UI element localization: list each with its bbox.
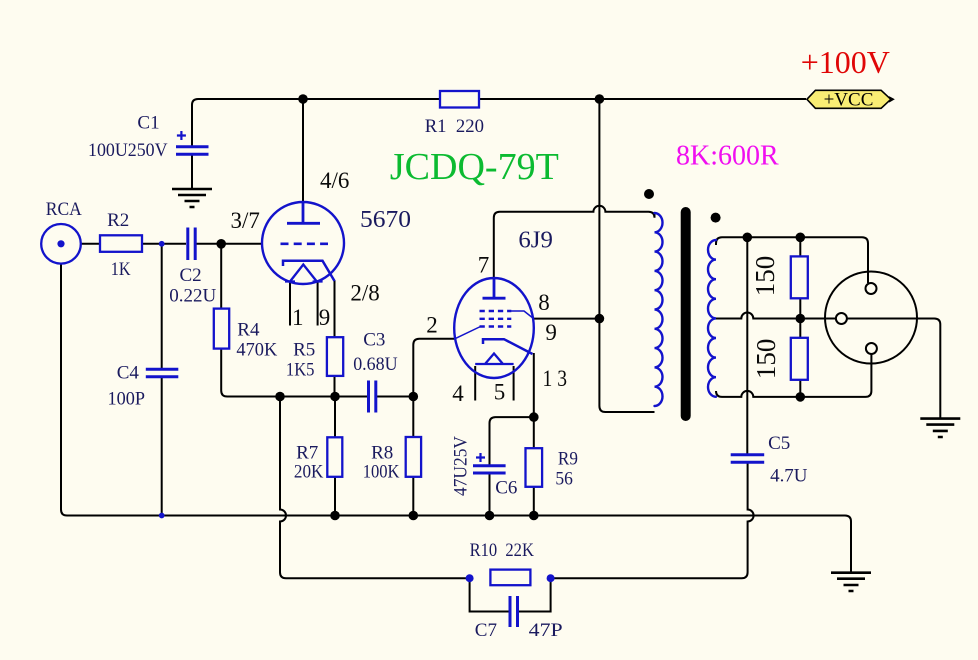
wire ground rail from RCA down and across to right ground [61, 264, 851, 572]
svg-text:+VCC: +VCC [824, 89, 874, 110]
svg-text:1K: 1K [111, 259, 131, 280]
svg-text:20K: 20K [294, 462, 324, 483]
svg-text:1 3: 1 3 [543, 366, 568, 391]
junction node 150 middle at center tap [796, 314, 806, 324]
wire 6J9 pin 8 to screen vertical [534, 318, 600, 320]
capacitor C3 plates [369, 381, 376, 413]
svg-text:5670: 5670 [360, 207, 411, 233]
svg-text:C7: C7 [475, 620, 497, 641]
ground at jack sleeve [920, 419, 960, 437]
wire C5 top up to transformer secondary top node [746, 237, 748, 454]
svg-text:100P: 100P [108, 388, 146, 409]
junction node R9 at ground rail [529, 511, 539, 521]
transformer secondary phase dot [711, 213, 721, 223]
svg-text:100U250V: 100U250V [88, 140, 168, 161]
svg-text:3/7: 3/7 [231, 208, 260, 233]
wire C3 right to 6J9 grid node [376, 396, 413, 398]
svg-text:47U25V: 47U25V [451, 436, 472, 496]
junction node R8 at ground rail [409, 511, 419, 521]
wire B+ top rail from C1 to +VCC flag [192, 99, 806, 147]
wire feedback branch down from node, hop over ground rail, to R10 [280, 397, 470, 579]
wire screen-grid vertical from B+ rail down to pin8 node and primary bottom [599, 99, 654, 412]
svg-text:1K5: 1K5 [286, 360, 315, 381]
junction node C3/R8/6J9 grid [409, 392, 419, 402]
capacitor C2 plates [188, 228, 195, 261]
svg-text:RCA: RCA [46, 199, 82, 220]
wire RCA to R2 [81, 243, 100, 245]
wire 6J9 plate (pin7) to transformer primary top, hop over vertical [494, 206, 655, 279]
svg-text:8: 8 [538, 290, 550, 315]
svg-text:R9: R9 [558, 448, 578, 469]
svg-text:470K: 470K [236, 340, 277, 361]
svg-text:0.68U: 0.68U [353, 354, 398, 375]
svg-text:JCDQ-79T: JCDQ-79T [390, 146, 559, 188]
junction node R5/R7 [330, 392, 340, 402]
wire R8 top and bottom leads [412, 397, 414, 516]
tube V1 plate [287, 203, 320, 223]
junction node feedback branch [275, 392, 285, 402]
transformer T1 primary winding [655, 213, 663, 406]
svg-text:100K: 100K [363, 462, 400, 483]
connector headphone jack [825, 272, 917, 364]
wire R2 to C2 [142, 243, 186, 245]
tube V2 6J9 envelope [454, 278, 534, 378]
wire 6J9 heater pin 4 stub [474, 366, 476, 401]
wire C1 bottom to ground [191, 154, 193, 189]
capacitor C6 polarity plus [476, 453, 485, 462]
jack sleeve pin [836, 313, 847, 324]
wire 5670 heater pin 1 stub [289, 282, 291, 326]
junction node R10 left [466, 574, 474, 582]
svg-text:2/8: 2/8 [350, 281, 379, 306]
svg-text:9: 9 [319, 305, 331, 330]
svg-text:C6: C6 [495, 477, 517, 498]
wire 6J9 heater pin 5 stub [513, 366, 515, 401]
transformer T1 core [681, 212, 691, 416]
ground at C1 [172, 189, 212, 207]
wire R4 branch down from grid node [220, 244, 222, 309]
power port +VCC flag [807, 90, 891, 108]
wire C4 bottom to ground rail [161, 378, 163, 516]
svg-text:5: 5 [494, 380, 506, 405]
resistor R5 [327, 337, 343, 376]
wire R4 bottom to cathode node rail [221, 349, 367, 397]
svg-text:+100V: +100V [801, 44, 890, 80]
svg-text:C5: C5 [768, 433, 790, 454]
svg-text:C4: C4 [117, 362, 140, 383]
tube V2 screen lead to pin 8 [511, 311, 534, 319]
resistor 150 bottom [791, 338, 808, 380]
svg-text:1: 1 [292, 305, 304, 330]
wire R5 bottom to node [334, 376, 336, 397]
junction node B+ after R1 [595, 94, 605, 104]
svg-text:150: 150 [751, 339, 781, 380]
svg-text:R7: R7 [296, 442, 318, 463]
svg-text:0.22U: 0.22U [169, 285, 216, 306]
svg-text:R4: R4 [237, 320, 260, 341]
svg-text:C1: C1 [137, 112, 159, 133]
tube V2 plate [483, 278, 506, 298]
wire jack sleeve pin right to ground, corner down [847, 319, 940, 419]
tube V2 grid g1 dashes [480, 310, 512, 312]
wire grid node up to 6J9 pin 2 [413, 339, 455, 397]
resistor R8 [406, 437, 421, 477]
junction node grid at R4 branch [216, 239, 226, 249]
junction node C4 at ground rail [159, 513, 165, 519]
svg-text:4: 4 [452, 381, 464, 406]
capacitor C4 plates [146, 369, 179, 377]
svg-text:R2: R2 [107, 210, 129, 231]
svg-text:R10 22K: R10 22K [470, 540, 535, 561]
tube V1 grid dashes [281, 243, 329, 246]
svg-text:6J9: 6J9 [518, 228, 553, 254]
capacitor C6 plates [473, 466, 506, 473]
svg-text:C2: C2 [180, 265, 202, 286]
tube V2 cathode [483, 339, 533, 354]
junction node C6 at ground rail [485, 511, 495, 521]
jack tip pin [866, 283, 877, 294]
svg-text:2: 2 [426, 312, 438, 337]
resistor R10 [490, 570, 530, 586]
junction node secondary top / C5 [743, 233, 753, 243]
ground at ground rail right end [831, 573, 871, 591]
svg-text:R1 220: R1 220 [425, 116, 484, 137]
junction node 150 bottom [796, 392, 806, 402]
jack ring pin [866, 343, 877, 354]
resistor R4 [214, 309, 229, 349]
svg-text:9: 9 [545, 320, 557, 345]
wire C6 bottom to ground rail [489, 474, 491, 516]
resistor 150 top [791, 256, 808, 298]
svg-text:4/6: 4/6 [320, 168, 349, 193]
capacitor C7 plates [510, 596, 518, 627]
junction node B+ at 5670 plate [298, 94, 308, 104]
junction node 6J9 cathode/C6 [529, 412, 539, 422]
capacitor C1 polarity plus [177, 131, 186, 140]
wire C4 branch down from input node [161, 244, 163, 368]
wire transformer secondary top to headphone jack tip pin [716, 237, 868, 283]
connector RCA jack [41, 224, 81, 264]
wire 5670 heater pin 9 stub [317, 282, 319, 326]
wire R7 top and bottom leads [334, 397, 336, 516]
tube V2 grid g3 dashes [480, 325, 512, 327]
resistor R1 [440, 91, 479, 108]
transformer primary phase dot [644, 189, 654, 199]
transformer T1 secondary winding [708, 240, 716, 397]
junction node input at C4 branch [159, 241, 165, 247]
tube V1 heater [285, 265, 323, 282]
wire R10 right to C5 bottom, corner up with hop over ground rail [551, 463, 754, 578]
junction node 150 top [796, 233, 806, 243]
svg-text:R5: R5 [293, 340, 315, 361]
tube V1 cathode [283, 261, 335, 281]
tube V2 heater [475, 354, 513, 365]
svg-text:150: 150 [750, 256, 780, 297]
wire 5670 plate lead vertical [302, 99, 304, 203]
wire 150 resistor chain leads [799, 237, 801, 397]
resistor R7 [327, 437, 342, 477]
svg-text:7: 7 [478, 253, 490, 278]
wire 6J9 cathode pins 1,3 down through R9 to ground rail [533, 353, 535, 516]
tube V2 grid g2 dashes [480, 318, 512, 320]
tube V2 grid lead to pin 2 [455, 327, 481, 339]
svg-text:47P: 47P [529, 620, 563, 641]
svg-text:8K:600R: 8K:600R [676, 141, 779, 172]
wire secondary bottom to jack ring pin, hops over C5 vertical [716, 354, 871, 397]
svg-text:C3: C3 [363, 330, 385, 351]
resistor R9 [526, 448, 543, 487]
junction node pin8/screen [595, 314, 605, 324]
svg-text:56: 56 [555, 468, 573, 489]
wire C7 parallel branch below R10 [470, 578, 551, 611]
wire C6 branch from cathode node [490, 417, 534, 465]
wire 5670 cathode pin 2/8 down to R5 [334, 280, 336, 337]
svg-text:4.7U: 4.7U [770, 466, 808, 487]
junction node R7 at ground rail [330, 511, 340, 521]
wire secondary center tap to jack sleeve pin, hops over C5 vertical [716, 313, 836, 319]
capacitor C1 plates [176, 147, 209, 155]
tube V1 5670 envelope [262, 202, 344, 284]
junction node R10 right [547, 574, 555, 582]
svg-text:R8: R8 [371, 442, 393, 463]
capacitor C5 plates [731, 455, 765, 463]
resistor R2 [100, 235, 142, 252]
wire C2 to 5670 grid [197, 243, 263, 245]
